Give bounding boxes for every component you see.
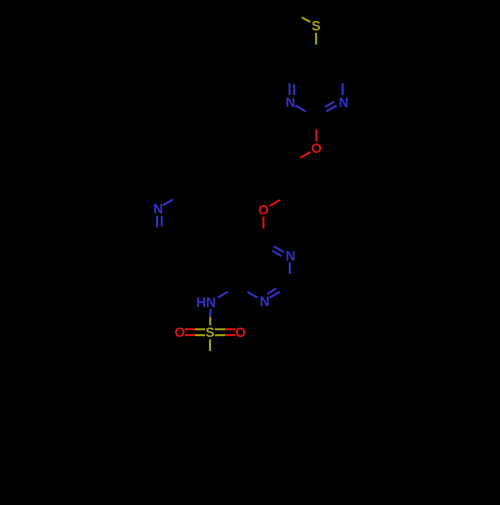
bond NH-S2 bbox=[209, 309, 211, 317]
svg-text:S: S bbox=[312, 19, 321, 34]
bond S1-CH3 (S half) bbox=[302, 17, 311, 22]
bond S2-CH3 (S half) bbox=[209, 339, 211, 351]
double bond S2=O6 bbox=[215, 334, 225, 336]
bond C2-O3 (O half) bbox=[315, 129, 317, 141]
svg-text:O: O bbox=[175, 325, 186, 340]
svg-text:N: N bbox=[260, 294, 270, 309]
bond O4-C4 central (O half) bbox=[262, 217, 264, 229]
double bond N1=C6 ring A bbox=[289, 83, 291, 95]
bond C4-N3 ring A bbox=[342, 83, 344, 95]
bond C5-S1 (S half) bbox=[315, 33, 317, 45]
svg-text:O: O bbox=[311, 141, 322, 156]
svg-text:HN: HN bbox=[196, 295, 216, 310]
double bond C2=N1 ring B bbox=[270, 292, 280, 298]
bond C6-NH (N half) bbox=[218, 292, 228, 298]
double bond pyridine N=C6 bbox=[156, 216, 158, 228]
bond N3-C2 ring B bbox=[289, 263, 291, 275]
double bond C4=N3 ring B bbox=[274, 246, 284, 252]
double bond S2=O5 bbox=[195, 328, 205, 330]
svg-text:N: N bbox=[286, 95, 296, 110]
bond N1-C6 ring B bbox=[248, 292, 258, 298]
bond O3-CH2 (O half) bbox=[300, 152, 310, 158]
bond CH2-O4 (O half) bbox=[269, 200, 279, 206]
bond pyridine N-C2 (N half) bbox=[163, 200, 173, 206]
double bond N3=C2 ring A bbox=[326, 106, 336, 112]
svg-text:S: S bbox=[205, 325, 214, 340]
svg-text:N: N bbox=[153, 202, 163, 217]
svg-text:N: N bbox=[286, 248, 296, 263]
svg-text:O: O bbox=[258, 202, 269, 217]
svg-text:N: N bbox=[339, 95, 349, 110]
bond C2-N1 ring A bbox=[296, 106, 306, 112]
svg-text:O: O bbox=[235, 325, 246, 340]
